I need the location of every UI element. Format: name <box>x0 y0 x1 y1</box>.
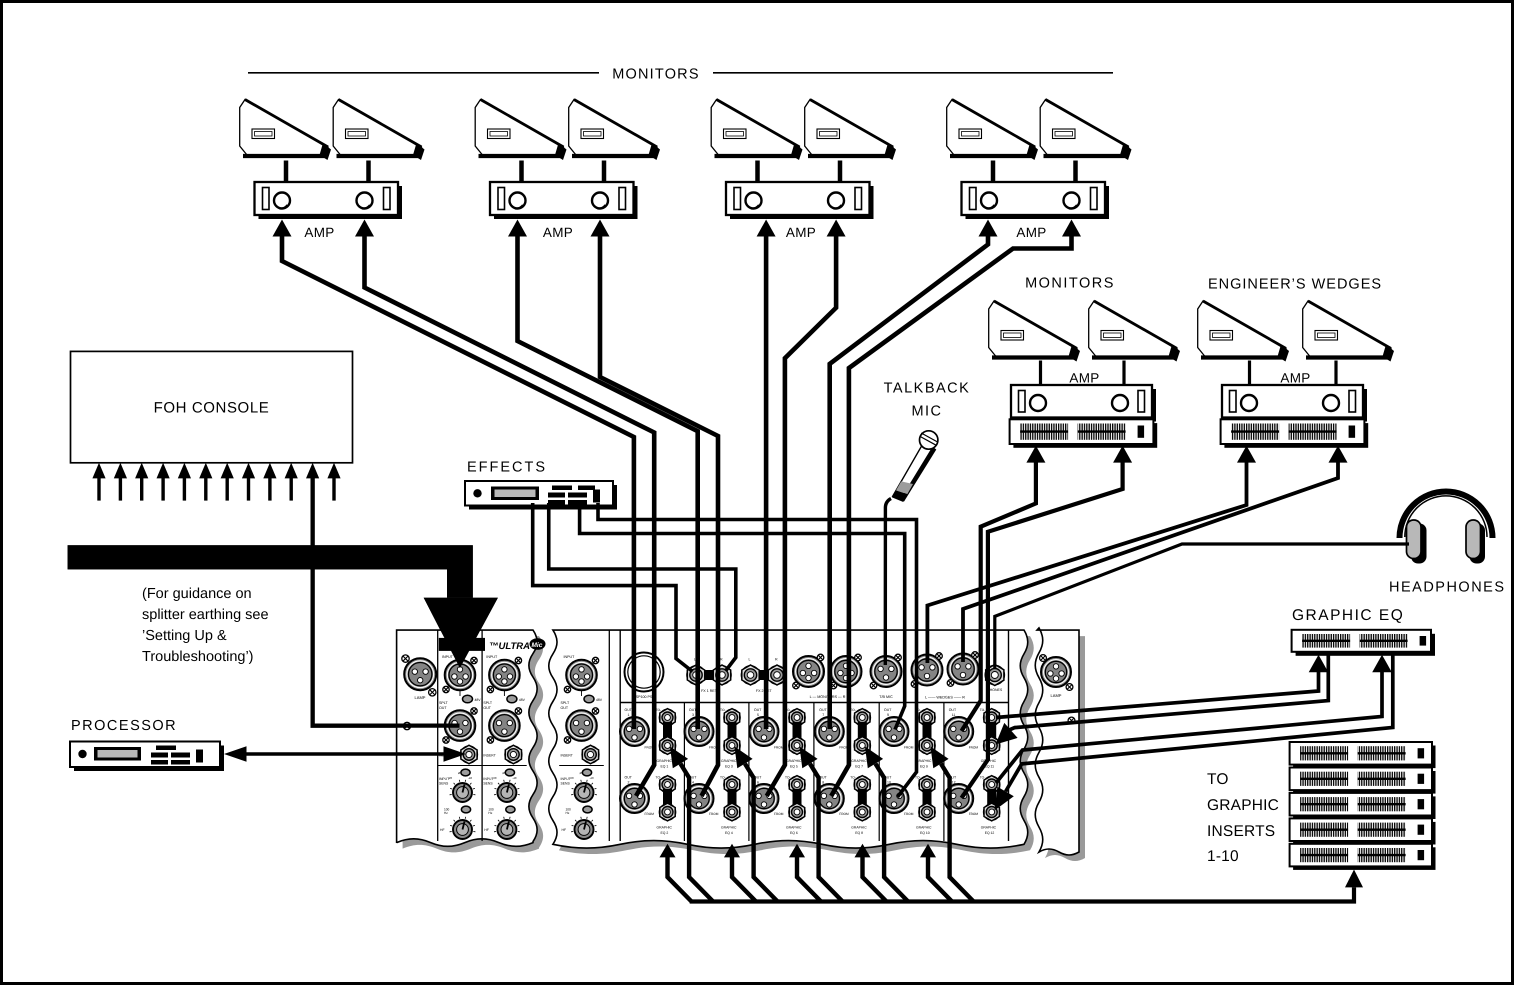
insert wires for jack column x=797 <box>797 856 821 902</box>
output strip OUT5/OUT6 <box>813 703 815 842</box>
svg-text:EQ 10: EQ 10 <box>920 831 930 835</box>
splitter black label band <box>439 638 485 651</box>
svg-text:FROM: FROM <box>709 812 719 816</box>
svg-text:EQ 9: EQ 9 <box>920 765 928 769</box>
headphones <box>1400 492 1493 564</box>
svg-text:HEADPHONES: HEADPHONES <box>1389 580 1506 596</box>
svg-text:AMP: AMP <box>1280 371 1310 386</box>
speaker stands / cables to amp 2 <box>519 161 524 184</box>
end panel LAMP XLR <box>1041 657 1071 687</box>
graphic EQ rack unit <box>1292 630 1435 656</box>
FOH CONSOLE box <box>71 351 353 462</box>
wedge pair right 2 <box>1198 301 1289 362</box>
output strip OUT9/OUT10 <box>943 703 945 842</box>
svg-text:GRAPHIC: GRAPHIC <box>981 826 997 830</box>
svg-text:INSERT: INSERT <box>561 754 573 758</box>
wire OUT11 to monitors amp left <box>962 461 1036 731</box>
output strip OUT1/OUT2 <box>683 703 685 842</box>
svg-text:GRAPHIC: GRAPHIC <box>786 826 802 830</box>
speaker stands / cables to amp 4 <box>991 161 996 184</box>
wire FROM GRAPHIC EQ 12 <box>1006 653 1393 792</box>
amplifier with EQ <box>1011 385 1156 422</box>
console end panel shadow <box>1041 634 1085 861</box>
svg-text:L: L <box>749 658 751 662</box>
svg-text:OUT: OUT <box>754 708 762 712</box>
amplifier AMP1 <box>255 182 403 219</box>
amplifier with EQ <box>1222 385 1367 422</box>
svg-text:SPLT: SPLT <box>439 701 449 705</box>
svg-text:9: 9 <box>887 713 889 717</box>
svg-text:OUT: OUT <box>625 708 633 712</box>
svg-text:EQ 12: EQ 12 <box>985 831 995 835</box>
svg-text:FROM: FROM <box>969 812 979 816</box>
svg-text:MONITORS: MONITORS <box>612 67 699 83</box>
wire OUT6 to AMP3 right <box>767 235 836 796</box>
wire OUT2 to AMP1 right <box>365 235 655 796</box>
svg-text:1: 1 <box>628 713 630 717</box>
svg-text:AMP: AMP <box>1069 371 1099 386</box>
monitor wedge 7 <box>947 100 1038 161</box>
svg-text:3: 3 <box>692 713 694 717</box>
svg-text:FROM: FROM <box>904 746 914 750</box>
effects output wire to FX1 RET R <box>549 503 736 671</box>
wire WEDGES R to engineer amp right <box>963 461 1338 662</box>
meter / speaker circle <box>625 653 664 692</box>
svg-text:OUT: OUT <box>439 706 447 710</box>
svg-text:TO-: TO- <box>980 708 986 712</box>
svg-text:T/B MIC: T/B MIC <box>879 695 893 699</box>
graphic insert rack 1 <box>1290 742 1436 768</box>
svg-text:-40: -40 <box>512 776 516 780</box>
monitor wedge 1 <box>240 100 331 161</box>
svg-text:FOH CONSOLE: FOH CONSOLE <box>154 400 270 417</box>
splitter panel shadow <box>403 636 544 852</box>
channel strip at x=504.4 <box>481 631 483 842</box>
effects output wire to FX1 RET L <box>533 503 693 672</box>
svg-text:8: 8 <box>822 781 824 785</box>
svg-text:R: R <box>775 658 778 662</box>
big arrow into splitter input <box>424 598 498 668</box>
graphic insert rack 2 <box>1290 768 1436 794</box>
svg-text:EQ 3: EQ 3 <box>725 765 733 769</box>
svg-text:5: 5 <box>757 713 759 717</box>
svg-text:’Setting Up &: ’Setting Up & <box>142 628 227 644</box>
svg-text:Hz: Hz <box>488 811 492 815</box>
svg-text:-20: -20 <box>570 776 574 780</box>
svg-text:TO-: TO- <box>720 708 726 712</box>
svg-text:GRAPHIC: GRAPHIC <box>916 759 932 763</box>
svg-text:LAMP: LAMP <box>1051 693 1062 698</box>
svg-text:EQ 5: EQ 5 <box>790 765 798 769</box>
monitor wedge 2 <box>333 100 424 161</box>
wedge pair right 1 <box>989 301 1080 362</box>
svg-text:OUT: OUT <box>561 706 569 710</box>
speaker stands / cables to amp 3 <box>755 161 760 184</box>
svg-text:INSERT: INSERT <box>483 754 495 758</box>
wire OUT1 to AMP1 left <box>282 235 634 729</box>
multicore snake (thick bar) from stage box <box>68 545 473 598</box>
svg-text:EQ 4: EQ 4 <box>725 831 733 835</box>
console end panel <box>1035 628 1079 855</box>
svg-text:MIC: MIC <box>911 404 942 420</box>
channel strip at x=460 <box>437 631 439 842</box>
svg-text:FROM: FROM <box>904 812 914 816</box>
svg-text:11: 11 <box>952 713 956 717</box>
monitor wedge 4 <box>569 100 660 161</box>
svg-text:7: 7 <box>822 713 824 717</box>
master XLR outs row <box>793 656 824 687</box>
svg-text:4: 4 <box>692 781 694 785</box>
svg-text:FX 1 RET: FX 1 RET <box>701 689 718 693</box>
svg-text:R: R <box>720 658 723 662</box>
svg-text:HF: HF <box>562 828 567 832</box>
wire FOH split feed down to splitter SPLIT OUT <box>313 477 460 726</box>
svg-text:SP100 PS: SP100 PS <box>636 695 653 699</box>
wire OUT12 to monitors amp right <box>962 461 1123 798</box>
insert wires for jack column x=928 <box>928 856 952 902</box>
svg-text:MONITORS: MONITORS <box>1025 276 1115 292</box>
svg-text:GRAPHIC: GRAPHIC <box>721 826 737 830</box>
master divider <box>620 702 1008 704</box>
insert send/return wire processor <-> splitter (double arrow) <box>243 752 447 755</box>
svg-text:Hz: Hz <box>444 811 448 815</box>
talkback mic cable <box>885 499 891 666</box>
headphones wire from PHONES jack <box>995 544 1409 669</box>
svg-text:HF: HF <box>440 828 445 832</box>
svg-text:ENGINEER’S WEDGES: ENGINEER’S WEDGES <box>1208 277 1382 293</box>
effects input wire from OUT9 <box>580 503 905 730</box>
svg-text:2: 2 <box>628 781 630 785</box>
svg-text:AMP: AMP <box>304 225 334 240</box>
wire FOH split feed down to splitter SPLIT OUT <box>313 477 460 726</box>
svg-text:TO: TO <box>1207 771 1229 788</box>
FX return jacks <box>702 670 716 680</box>
svg-text:SPLT: SPLT <box>561 701 571 705</box>
svg-text:GRAPHIC: GRAPHIC <box>1207 797 1279 814</box>
svg-text:PROCESSOR: PROCESSOR <box>71 718 177 734</box>
amplifier AMP2 <box>490 182 638 219</box>
svg-text:GRAPHIC: GRAPHIC <box>721 759 737 763</box>
splitter LAMP XLR <box>404 658 436 690</box>
svg-text:-40: -40 <box>468 776 472 780</box>
processor rack unit <box>70 742 224 772</box>
svg-text:FROM: FROM <box>774 746 784 750</box>
wire OUT8 to AMP4 right <box>831 235 1071 796</box>
svg-text:AMP: AMP <box>1016 225 1046 240</box>
svg-text:INPUT: INPUT <box>564 655 576 659</box>
svg-text:-20: -20 <box>492 776 496 780</box>
wire OUT4 to AMP2 right <box>600 235 718 796</box>
svg-text:GRAPHIC: GRAPHIC <box>786 759 802 763</box>
svg-text:TALKBACK: TALKBACK <box>884 381 971 397</box>
amplifier AMP4 <box>962 182 1110 219</box>
svg-text:Hz: Hz <box>566 811 570 815</box>
svg-text:GRAPHIC: GRAPHIC <box>851 826 867 830</box>
svg-text:(For guidance on: (For guidance on <box>142 586 252 602</box>
svg-text:48V: 48V <box>475 698 482 702</box>
svg-text:SENS: SENS <box>561 782 571 786</box>
svg-text:OUT: OUT <box>819 708 827 712</box>
svg-text:Troubleshooting’): Troubleshooting’) <box>142 649 254 665</box>
wire OUT3 to AMP2 left <box>518 235 698 729</box>
svg-text:OUT: OUT <box>625 776 633 780</box>
svg-text:1-10: 1-10 <box>1207 848 1239 865</box>
insert wires for jack column x=862.5 <box>863 856 887 902</box>
svg-text:-40: -40 <box>590 776 594 780</box>
svg-text:AMP: AMP <box>543 225 573 240</box>
svg-text:HF: HF <box>484 828 489 832</box>
stands <box>1039 361 1042 387</box>
svg-text:AMP: AMP <box>786 225 816 240</box>
svg-text:INPUT: INPUT <box>442 655 454 659</box>
talkback mic <box>892 431 938 502</box>
svg-text:GRAPHIC EQ: GRAPHIC EQ <box>1292 607 1404 624</box>
monitor wedge 8 <box>1040 100 1131 161</box>
svg-text:SENS: SENS <box>483 782 493 786</box>
svg-text:FROM: FROM <box>645 812 655 816</box>
svg-text:EQ 1: EQ 1 <box>661 765 669 769</box>
svg-text:FROM: FROM <box>839 812 849 816</box>
graphic insert rack 5 <box>1290 844 1436 870</box>
stands <box>1248 361 1251 387</box>
effects input wire from OUT10 <box>598 503 917 797</box>
svg-text:FROM: FROM <box>969 746 979 750</box>
svg-text:FROM: FROM <box>774 812 784 816</box>
amplifier AMP3 <box>726 182 874 219</box>
svg-text:EQ 7: EQ 7 <box>855 765 863 769</box>
svg-text:6: 6 <box>757 781 759 785</box>
wire TO GRAPHIC EQ 11 <box>996 669 1319 718</box>
phones jack <box>985 665 1005 686</box>
svg-text:Mic: Mic <box>532 642 543 649</box>
title MONITORS with rules <box>248 72 599 74</box>
output strip OUT7/OUT8 <box>878 703 880 842</box>
svg-text:L —— WEDGES —— R: L —— WEDGES —— R <box>925 696 965 700</box>
wire WEDGES L to engineer amp left <box>927 461 1246 663</box>
svg-text:INPUT: INPUT <box>486 655 498 659</box>
big arrow into splitter input <box>424 598 498 668</box>
insert wires for jack column x=667.5 <box>668 856 692 902</box>
svg-text:™ULTRA: ™ULTRA <box>489 641 530 652</box>
multicore snake (thick bar) from FOH <box>68 545 473 598</box>
svg-text:GRAPHIC: GRAPHIC <box>851 759 867 763</box>
arrows into AMP2 <box>508 220 527 237</box>
wire OUT5 to AMP3 left <box>764 235 769 729</box>
svg-text:EQ 6: EQ 6 <box>790 831 798 835</box>
svg-text:SPLT: SPLT <box>483 701 493 705</box>
svg-text:EQ 8: EQ 8 <box>855 831 863 835</box>
svg-text:GRAPHIC: GRAPHIC <box>657 826 673 830</box>
svg-text:48V: 48V <box>596 698 603 702</box>
svg-text:splitter earthing see: splitter earthing see <box>142 607 269 623</box>
svg-text:SENS: SENS <box>439 782 449 786</box>
splitter panel <box>397 630 538 846</box>
svg-text:EQ 2: EQ 2 <box>661 831 669 835</box>
svg-text:INSERTS: INSERTS <box>1207 823 1275 840</box>
monitor wedge 5 <box>711 100 802 161</box>
console main panel shadow <box>555 636 1034 854</box>
svg-text:48V: 48V <box>519 698 526 702</box>
arrows into AMP3 <box>757 220 776 237</box>
monitor wedge 3 <box>475 100 566 161</box>
svg-text:OUT: OUT <box>483 706 491 710</box>
monitor wedge 6 <box>805 100 896 161</box>
insert wires for jack column x=732 <box>732 856 756 902</box>
svg-text:-20: -20 <box>448 776 452 780</box>
svg-text:OUT: OUT <box>949 708 957 712</box>
svg-text:OUT: OUT <box>884 708 892 712</box>
speaker stands / cables to amp 1 <box>284 161 289 184</box>
graphic insert rack 4 <box>1290 818 1436 844</box>
wire FROM GRAPHIC EQ 11 <box>1008 653 1328 731</box>
svg-text:LAMP: LAMP <box>415 695 426 700</box>
svg-text:EFFECTS: EFFECTS <box>467 460 547 476</box>
arrows from splitter into FOH console <box>92 463 105 479</box>
console main panel <box>549 630 1028 848</box>
svg-text:GRAPHIC: GRAPHIC <box>916 826 932 830</box>
effects rack unit <box>465 481 617 510</box>
svg-text:GRAPHIC: GRAPHIC <box>657 759 673 763</box>
arrows into AMP4 <box>979 220 998 237</box>
graphic insert rack 3 <box>1290 793 1436 819</box>
arrows into AMP1 <box>273 220 292 237</box>
output strip OUT3/OUT4 <box>748 703 750 842</box>
graphic inserts bus wire <box>690 887 1354 901</box>
wire OUT7 to AMP4 left <box>830 235 988 729</box>
wire TO GRAPHIC EQ 12 <box>996 669 1382 783</box>
